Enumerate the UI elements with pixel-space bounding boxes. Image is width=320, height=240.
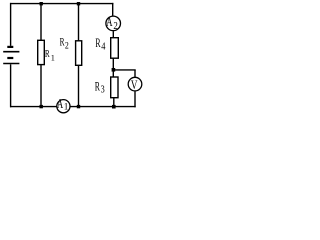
battery B	[3, 47, 19, 64]
wire left top	[10, 3, 12, 46]
resistor R4	[95, 36, 118, 58]
resistor R2	[60, 37, 82, 66]
wire V to bottom	[134, 91, 136, 107]
node R4-R3	[112, 68, 116, 72]
node top R1	[40, 2, 43, 5]
wire branch R2 bottom	[78, 66, 80, 107]
ammeter A1	[57, 96, 70, 113]
svg-text:R: R	[95, 80, 101, 94]
wire left bottom	[10, 64, 12, 107]
svg-text:A: A	[106, 14, 112, 29]
wire A2 to R4	[112, 31, 114, 37]
wire branch R1 bottom	[40, 65, 42, 107]
ammeter A2	[106, 14, 121, 32]
wire bottom left	[10, 106, 57, 108]
wire V down	[134, 70, 136, 78]
svg-text:1: 1	[64, 102, 69, 112]
svg-text:1: 1	[51, 53, 55, 62]
wire branch R2 top	[78, 4, 80, 41]
svg-text:2: 2	[113, 20, 118, 32]
node top R2	[77, 2, 80, 5]
voltmeter V	[128, 77, 142, 92]
svg-text:A: A	[57, 96, 63, 111]
resistor R3	[95, 77, 118, 98]
wire right to A2	[112, 3, 114, 16]
svg-text:2: 2	[65, 40, 69, 50]
svg-text:V: V	[131, 77, 138, 92]
node bottom R2	[77, 105, 80, 108]
wire R4 to node	[112, 59, 114, 77]
svg-text:R: R	[45, 48, 50, 60]
wire node to V	[113, 69, 135, 71]
node bottom R1	[40, 105, 43, 108]
wire top	[10, 3, 113, 5]
wire R3 to bottom	[113, 98, 115, 107]
node bottom R3	[112, 105, 116, 109]
wire bottom right	[70, 106, 135, 108]
resistor R1	[38, 40, 55, 64]
svg-text:4: 4	[101, 41, 106, 53]
svg-text:3: 3	[101, 84, 105, 96]
wire branch R1 top	[40, 4, 42, 41]
